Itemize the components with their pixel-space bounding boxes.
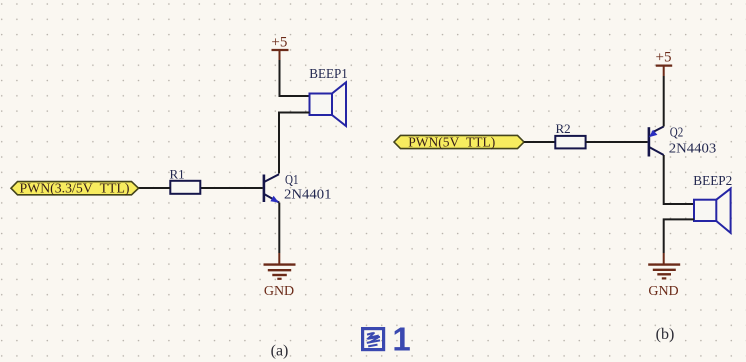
wire +5 to Q2 emitter: [663, 76, 665, 127]
ground GND (left): [264, 253, 296, 299]
svg-text:R2: R2: [556, 121, 571, 136]
svg-text:BEEP2: BEEP2: [693, 174, 732, 189]
svg-text:Q2: Q2: [670, 126, 684, 141]
node PWN(5V TTL) input port: [394, 135, 524, 150]
wire BEEP2 pin 2 to GND: [664, 219, 694, 253]
svg-text:1: 1: [392, 321, 410, 358]
resistor R1: [170, 181, 200, 194]
svg-text:+5: +5: [271, 35, 287, 51]
node PWN(3.3/5V TTL) input port: [11, 182, 139, 197]
resistor R2: [555, 136, 585, 149]
wire port to R2: [524, 141, 555, 143]
wire port to R1: [139, 187, 171, 189]
svg-text:2N4403: 2N4403: [669, 142, 717, 157]
svg-text:Q1: Q1: [285, 173, 299, 188]
svg-text:GND: GND: [648, 284, 678, 299]
wire R1 to Q1 base: [201, 187, 263, 189]
wire Q1 emitter to GND: [278, 203, 280, 253]
ground GND (right): [648, 253, 680, 299]
svg-text:(a): (a): [271, 343, 289, 360]
power +5 (left): [271, 35, 288, 61]
speaker BEEP2: [694, 189, 731, 233]
wire Q2 collector to BEEP2 pin 1: [664, 155, 694, 204]
transistor Q1: [263, 174, 280, 202]
svg-text:PWN(3.3/5V TTL): PWN(3.3/5V TTL): [20, 182, 130, 197]
wire +5 to BEEP1 pin 1: [280, 60, 310, 96]
svg-text:R1: R1: [170, 167, 185, 182]
wire R2 to Q2 base: [586, 141, 648, 143]
svg-text:BEEP1: BEEP1: [309, 67, 348, 82]
svg-text:+5: +5: [656, 50, 672, 66]
svg-text:(b): (b): [656, 326, 675, 343]
caption character 图: [363, 329, 384, 350]
svg-text:PWN(5V TTL): PWN(5V TTL): [408, 136, 495, 151]
transistor Q2: [648, 127, 664, 157]
svg-text:2N4401: 2N4401: [284, 188, 332, 203]
svg-text:GND: GND: [264, 284, 294, 299]
power +5 (right): [656, 50, 673, 77]
speaker BEEP1: [310, 82, 347, 126]
wire BEEP1 pin 2 to Q1 collector: [279, 113, 310, 174]
